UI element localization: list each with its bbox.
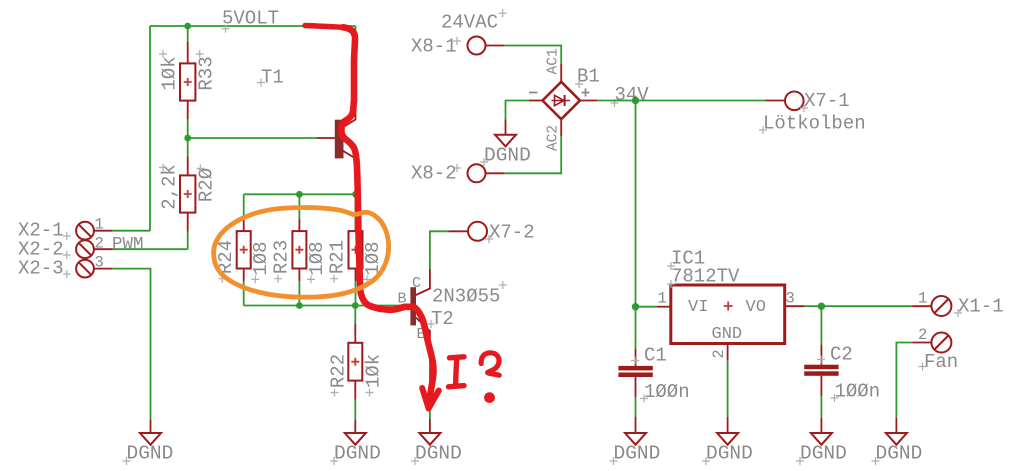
label X8-1 xyxy=(411,36,461,58)
svg-text:X8-2: X8-2 xyxy=(411,163,457,185)
svg-text:1: 1 xyxy=(95,216,104,234)
label 10k (R22 value) xyxy=(362,354,384,397)
connector X2-1 xyxy=(76,222,150,240)
svg-text:DGND: DGND xyxy=(614,443,661,465)
resistor R33 xyxy=(180,26,195,138)
svg-text:DGND: DGND xyxy=(876,443,923,465)
ground DGND (Fan) xyxy=(872,433,923,465)
svg-text:X1-1: X1-1 xyxy=(958,296,1004,318)
wire T1 base xyxy=(188,137,317,139)
svg-text:R33: R33 xyxy=(195,56,217,90)
connector X7-1 xyxy=(765,92,803,111)
label R21 xyxy=(327,240,349,283)
bridge minus sign xyxy=(529,92,538,94)
svg-text:1Ø8: 1Ø8 xyxy=(306,241,328,275)
capacitor C1 xyxy=(618,307,652,433)
annotation arrowhead xyxy=(422,388,439,409)
label X2-2 xyxy=(18,239,71,261)
label C2 xyxy=(817,344,853,366)
svg-text:R2Ø: R2Ø xyxy=(195,168,217,202)
IC1 origin cross xyxy=(724,302,733,311)
svg-text:2: 2 xyxy=(710,349,728,358)
svg-text:DGND: DGND xyxy=(706,443,753,465)
label Loetkolben xyxy=(759,113,866,135)
label X2-3 xyxy=(18,258,71,280)
label C1 xyxy=(631,345,667,367)
label 108 (R23 value) xyxy=(306,241,328,283)
ground DGND (IC1 pin2) xyxy=(702,433,753,465)
label 24VAC xyxy=(441,9,507,33)
svg-text:2,2k: 2,2k xyxy=(159,164,181,210)
label 7812TV xyxy=(667,266,740,289)
junction top rail R23 xyxy=(296,191,303,198)
capacitor C2 xyxy=(804,306,838,433)
svg-text:1ØØn: 1ØØn xyxy=(644,381,690,403)
svg-text:R21: R21 xyxy=(327,240,349,274)
junction IC1 input / C1 xyxy=(632,303,639,310)
svg-text:C: C xyxy=(412,275,421,292)
ground DGND (C1) xyxy=(610,433,661,465)
ground DGND (X2-3) xyxy=(123,433,174,465)
label 2,2k (R20 value) xyxy=(159,164,181,210)
label R33 xyxy=(195,50,217,91)
svg-text:Fan: Fan xyxy=(924,351,958,373)
label X7-1 xyxy=(800,90,850,112)
wire left vertical X2-1 to 5VOLT xyxy=(149,26,151,231)
label X7-2 xyxy=(485,222,535,244)
resistor R21 xyxy=(349,194,363,305)
resistor R20 xyxy=(180,138,195,249)
wire 34V net to X7-1 xyxy=(597,100,765,102)
annotation letter I xyxy=(449,357,465,387)
wire IC1 output to X1-1 xyxy=(804,305,912,307)
wire 34V down to IC1 xyxy=(635,101,637,307)
svg-text:1ØØn: 1ØØn xyxy=(835,381,881,403)
svg-text:R22: R22 xyxy=(327,354,349,388)
annotation question mark xyxy=(481,353,499,375)
svg-text:VO: VO xyxy=(746,298,766,317)
net label 34V xyxy=(611,84,650,107)
svg-text:C2: C2 xyxy=(830,344,853,366)
svg-text:T1: T1 xyxy=(261,67,284,89)
bridge plus sign xyxy=(582,89,590,97)
svg-text:7812TV: 7812TV xyxy=(671,266,740,288)
junction bottom rail R22 xyxy=(352,302,359,309)
annotation red current trace xyxy=(305,26,344,28)
resistor R24 xyxy=(237,194,251,305)
svg-text:AC2: AC2 xyxy=(546,125,562,151)
svg-text:DGND: DGND xyxy=(484,145,531,167)
svg-text:34V: 34V xyxy=(615,84,650,106)
svg-text:C1: C1 xyxy=(644,345,667,367)
IC1 7812TV regulator xyxy=(636,285,805,361)
svg-text:DGND: DGND xyxy=(800,443,847,465)
svg-text:5VOLT: 5VOLT xyxy=(222,8,279,30)
label 108 (R24 value) xyxy=(250,241,272,283)
connector X1-1 xyxy=(912,296,951,316)
svg-text:1: 1 xyxy=(918,290,927,308)
svg-text:Lötkolben: Lötkolben xyxy=(763,113,866,135)
wire top rail of parallel resistors xyxy=(244,193,356,195)
svg-text:R23: R23 xyxy=(271,240,293,274)
junction bottom rail R23 xyxy=(296,302,303,309)
connector X2-2 xyxy=(76,240,188,258)
connector Fan xyxy=(896,333,951,433)
svg-text:2: 2 xyxy=(95,235,104,253)
junction 34V xyxy=(632,97,639,104)
label Fan xyxy=(919,351,959,373)
label R23 xyxy=(271,240,293,283)
label X1-1 xyxy=(954,296,1004,318)
connector X8-1 xyxy=(468,37,562,65)
connector X7-2 xyxy=(449,222,488,241)
svg-text:X2-3: X2-3 xyxy=(18,258,64,280)
svg-text:AC1: AC1 xyxy=(546,48,562,74)
resistor R22 xyxy=(348,306,362,434)
label 10k (R33 value) xyxy=(159,50,181,91)
label R22 xyxy=(327,354,349,397)
junction C2 xyxy=(818,303,825,310)
annotation question dot xyxy=(484,392,495,403)
label R24 xyxy=(215,240,237,283)
transistor T1 xyxy=(335,26,356,194)
connector X8-2 xyxy=(468,136,562,182)
svg-text:1Øk: 1Øk xyxy=(159,56,181,90)
label T2 xyxy=(427,308,454,330)
connector X2-3 xyxy=(76,260,150,433)
svg-text:PWM: PWM xyxy=(112,235,144,255)
svg-text:24VAC: 24VAC xyxy=(441,12,498,34)
label IC1 xyxy=(667,248,705,271)
junction R33/R20/T1-base xyxy=(184,135,191,142)
svg-text:X7-2: X7-2 xyxy=(489,222,535,244)
label R20 xyxy=(195,164,217,202)
svg-text:2: 2 xyxy=(918,326,927,344)
svg-text:2N3Ø55: 2N3Ø55 xyxy=(432,286,500,308)
svg-text:X8-1: X8-1 xyxy=(411,36,457,58)
wire bottom rail to T2 base xyxy=(244,305,404,307)
transistor T2 xyxy=(410,231,448,432)
wire IC1 GND pin down xyxy=(727,361,729,433)
label 100n (C1 value) xyxy=(640,381,690,403)
ground DGND (T2 emitter) xyxy=(411,433,462,465)
rectifier B1 xyxy=(506,64,598,136)
label 108 (R21 value) xyxy=(362,241,384,283)
junction at R33 top xyxy=(184,23,191,30)
ground DGND (R22) xyxy=(330,433,381,465)
svg-text:1Ø8: 1Ø8 xyxy=(250,241,272,275)
svg-text:3: 3 xyxy=(786,290,795,308)
ground DGND (bridge minus) xyxy=(480,135,531,167)
svg-text:GND: GND xyxy=(712,325,743,344)
wire 5VOLT rail xyxy=(150,25,356,27)
annotation orange ellipse around R24 R23 R21 xyxy=(214,208,389,298)
label X8-2 xyxy=(411,163,461,185)
ground DGND (C2) xyxy=(796,433,847,465)
svg-text:DGND: DGND xyxy=(127,443,174,465)
label 2N3055 xyxy=(432,281,507,308)
label B1 xyxy=(575,66,600,89)
svg-text:1Øk: 1Øk xyxy=(362,354,384,388)
resistor R23 xyxy=(292,194,306,305)
svg-text:1: 1 xyxy=(658,290,667,308)
svg-text:3: 3 xyxy=(95,254,104,272)
label T1 xyxy=(257,67,284,89)
svg-text:VI: VI xyxy=(688,298,708,317)
junction top rail R21/T1 xyxy=(352,191,359,198)
node 5VOLT label xyxy=(222,8,280,33)
svg-text:DGND: DGND xyxy=(334,443,381,465)
svg-text:DGND: DGND xyxy=(415,443,462,465)
label X2-1 xyxy=(18,220,71,242)
svg-text:T2: T2 xyxy=(431,308,454,330)
svg-text:X7-1: X7-1 xyxy=(804,90,850,112)
label 100n (C2 value) xyxy=(831,381,881,403)
